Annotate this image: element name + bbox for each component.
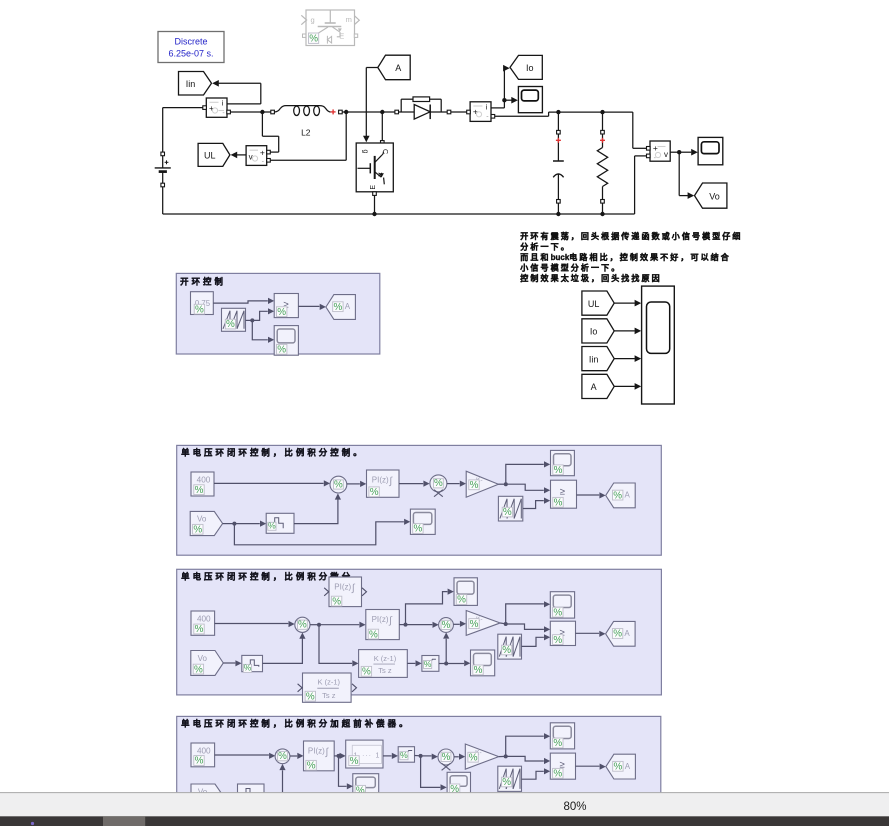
port resistor bottom [601, 200, 605, 204]
svg-text:%: % [307, 761, 316, 772]
goto tag A r3 [606, 621, 636, 646]
wire node to scope2 r3 [446, 660, 470, 666]
svg-text:+: + [653, 143, 658, 153]
wire gain node r4 [499, 754, 508, 758]
wire gain node r3 [500, 622, 508, 626]
wire node to scope3 r3 [506, 601, 551, 624]
wire CM1 to inductor [230, 111, 270, 113]
from tag Iin (monitor) [582, 347, 614, 371]
wire saturation node r3 [439, 662, 448, 666]
area title PI control [181, 448, 365, 458]
wire Vo feedback to scope r2 [234, 519, 410, 545]
svg-text:%: % [369, 629, 378, 640]
wire diode to CM2 [451, 111, 467, 113]
wire node to product r4 [421, 754, 438, 760]
junction capacitor branch [556, 110, 560, 130]
from tag Vo r4 [191, 784, 223, 808]
svg-text:%: % [554, 465, 563, 476]
svg-text:PI(z): PI(z) [372, 615, 389, 624]
svg-text:Discrete: Discrete [174, 37, 207, 47]
svg-text:%: % [268, 521, 276, 531]
scope block region1 (commented) [274, 326, 298, 356]
wire Iin to scope [614, 355, 641, 362]
svg-text:%: % [424, 659, 432, 669]
svg-text:Io: Io [590, 327, 598, 337]
wire gain output node r2 [498, 482, 507, 486]
wire rate block to sum r2 [294, 493, 341, 523]
from tag Vo r3 [191, 651, 224, 676]
wire L2 to diode [342, 111, 395, 113]
svg-text:A: A [624, 629, 630, 638]
svg-text:%: % [244, 663, 252, 673]
wire to Vo tag [679, 152, 694, 199]
svg-text:Iin: Iin [186, 79, 196, 89]
wire VM2 output node [670, 150, 681, 154]
sum block r2 [330, 476, 347, 493]
svg-text:m: m [346, 15, 352, 24]
wire PI out node r3 [399, 622, 438, 628]
svg-text:单电压环闭环控制，比例积分控制。: 单电压环闭环控制，比例积分控制。 [181, 448, 365, 458]
svg-text:E: E [370, 185, 377, 190]
svg-text:%: % [502, 777, 511, 788]
svg-text:K (z-1): K (z-1) [374, 654, 397, 663]
svg-text:%: % [400, 750, 408, 760]
svg-text:%: % [334, 479, 343, 490]
svg-text:%: % [195, 756, 204, 767]
voltage measurement block VM2 [650, 141, 670, 162]
svg-text:%: % [442, 620, 451, 631]
svg-text:%: % [470, 619, 479, 630]
svg-text:400: 400 [197, 747, 211, 756]
repeating sequence block (commented) [222, 308, 246, 331]
gain block r3 [466, 611, 500, 636]
wire Vo to rate block r2 [223, 521, 267, 527]
svg-text:%: % [298, 620, 307, 631]
svg-text:PI(z): PI(z) [334, 583, 351, 592]
scope (Io) [518, 87, 542, 113]
wire node down to scope r4 [339, 756, 354, 790]
inductor L2 [274, 106, 330, 116]
goto tag A r4 [606, 754, 636, 779]
repeating sequence block r4 [498, 766, 522, 791]
svg-text:%: % [469, 752, 478, 763]
svg-text:UL: UL [588, 299, 600, 309]
red polarity mark resistor [600, 138, 605, 143]
commented-out IGBT/Diode block (gray) [301, 10, 359, 46]
wire node to relational r4 [506, 756, 551, 764]
area: open loop control region [176, 273, 379, 354]
svg-text:%: % [195, 485, 204, 496]
goto tag UL [198, 143, 230, 166]
scope (Vo) [698, 137, 723, 164]
constant block 0.75 (commented) [191, 292, 214, 316]
capacitor C1 [553, 134, 564, 200]
goto tag A region1 (commented) [326, 295, 356, 320]
current measurement block CM1 [206, 98, 227, 117]
wire node up to sum2 r3 [443, 632, 449, 663]
wire product to gain r4 [454, 754, 465, 760]
svg-text:%: % [195, 304, 204, 315]
svg-text:分析一下。: 分析一下。 [520, 242, 571, 252]
svg-text:A: A [395, 63, 401, 73]
bottom rail wire [163, 213, 635, 215]
relational operator block r4 [550, 753, 575, 779]
svg-text:%: % [277, 307, 286, 318]
wire rail to VM2 minus [635, 156, 647, 214]
svg-text:开环控制: 开环控制 [180, 276, 226, 286]
PI(z) controller block r4 [304, 741, 335, 772]
port VM2 plus [647, 147, 651, 151]
svg-text:C: C [381, 149, 388, 154]
wire capacitor to rail [556, 203, 560, 216]
load resistor R1 [597, 134, 607, 200]
sum block r3 [295, 617, 310, 632]
saturation block r4 [398, 747, 414, 763]
port L2 right [339, 110, 343, 114]
svg-text:K (z-1): K (z-1) [318, 677, 341, 686]
wire Io to scope [614, 328, 641, 335]
svg-text:400: 400 [197, 615, 211, 624]
current measurement block CM2 [470, 102, 491, 122]
wire product to gain r2 [447, 481, 466, 487]
saturation block r3 [422, 656, 439, 672]
wire node to relational r3 [506, 624, 551, 633]
goto tag A r2 [606, 483, 636, 508]
red polarity mark capacitor [556, 138, 561, 143]
svg-text:. . .: . . . [362, 752, 371, 758]
junction node to IGBT collector [380, 110, 384, 141]
annotation text (Chinese) [519, 231, 742, 283]
svg-text:Iin: Iin [589, 354, 599, 364]
port VM2 minus [647, 154, 651, 158]
svg-text:%: % [306, 691, 315, 702]
sum block r4 [275, 749, 290, 764]
wire A to scope [614, 383, 641, 390]
rate transition block r4 [238, 784, 265, 804]
svg-text:A: A [625, 762, 631, 771]
port diode cathode [447, 110, 451, 114]
wire node to bottom scope r4 [421, 756, 447, 791]
scope block bottom r3 [471, 650, 495, 676]
wire node to derivative r3 [319, 625, 359, 667]
from tag A (monitor) [582, 374, 614, 398]
wire Vo to rate r3 [223, 660, 241, 666]
wire diode anode [399, 111, 415, 113]
svg-text:%: % [332, 596, 341, 607]
svg-text:%: % [502, 645, 511, 656]
relational operator block r2 [551, 480, 577, 508]
svg-text:%: % [370, 487, 379, 498]
wire node to scope1 r3 [406, 589, 454, 625]
wire sum2 to gain r3 [453, 621, 466, 627]
svg-text:%: % [278, 751, 287, 762]
svg-text:Vo: Vo [197, 515, 207, 524]
wire relational to goto r2 [577, 492, 606, 498]
red polarity mark L2 right [331, 109, 336, 114]
svg-text:开环有震荡，回头根据传递函数或小信号模型仔细: 开环有震荡，回头根据传递函数或小信号模型仔细 [520, 231, 742, 241]
port CM1 left [203, 106, 207, 110]
svg-text:PI(z): PI(z) [372, 476, 389, 485]
svg-text:%: % [553, 635, 562, 646]
constant block 400 r2 [191, 472, 214, 496]
svg-text:小信号模型分析一下。: 小信号模型分析一下。 [519, 262, 621, 272]
repeating sequence block r2 [498, 496, 522, 521]
scope block top r4 [550, 723, 574, 749]
scope block top r2 [551, 450, 575, 476]
scope block top-left r3 [454, 578, 477, 606]
wire saturation node r4 [415, 754, 423, 758]
wire VM1 to UL tag [231, 152, 247, 159]
svg-text:%: % [474, 665, 483, 676]
svg-text:%: % [362, 667, 371, 678]
svg-text:80%: 80% [563, 801, 586, 813]
port diode anode [395, 110, 399, 114]
wire lead to saturation r4 [383, 753, 398, 759]
zoom level text 80% [563, 801, 586, 813]
svg-text:%: % [195, 624, 204, 635]
wire 400 to sum r2 [214, 480, 330, 486]
discrete derivative block r3 [359, 650, 408, 678]
svg-text:6.25e-07 s.: 6.25e-07 s. [168, 49, 213, 59]
svg-text:单电压环闭环控制，比例积分加超前补偿器。: 单电压环闭环控制，比例积分加超前补偿器。 [181, 719, 411, 729]
svg-text:g: g [311, 16, 315, 25]
svg-text:%: % [613, 629, 622, 640]
wire sum to node r3 [310, 622, 366, 628]
from tag UL (monitor) [582, 291, 614, 315]
scope block top-right r3 [550, 592, 574, 619]
wire A tag to IGBT gate [363, 68, 378, 143]
svg-text:A: A [591, 382, 597, 392]
rate transition block r3 [242, 655, 263, 672]
svg-text:%: % [503, 507, 512, 518]
port CM2 left [467, 110, 471, 114]
svg-text:%: % [613, 490, 622, 501]
voltage measurement block VM1 [246, 146, 267, 166]
area: closed-loop PI plus lead compensator region [177, 716, 661, 796]
status bar [0, 792, 889, 816]
wire sum to PI r4 [290, 753, 304, 759]
junction resistor branch [600, 110, 604, 130]
rate transition block r2 [266, 513, 294, 533]
powergui block (Discrete 6.25e-07 s.) [158, 32, 224, 63]
wire resistor to rail [600, 203, 604, 216]
wire sawtooth to relational r2 [523, 498, 550, 509]
area title PID [181, 572, 365, 582]
svg-text:+: + [209, 103, 214, 113]
product block r4 [438, 749, 454, 770]
scope block bottom middle r4 [447, 772, 470, 795]
svg-text:%: % [226, 319, 235, 330]
svg-text:v: v [664, 150, 668, 159]
wire into Iin tag [212, 80, 261, 104]
wire relational to goto r3 [576, 631, 606, 637]
relational operator block (commented) [274, 294, 298, 318]
svg-text:400: 400 [197, 476, 211, 485]
wire node to scope top r2 [506, 461, 550, 484]
IGBT Q1 [356, 143, 393, 192]
port CM1 right [227, 110, 231, 114]
svg-text:Ts z: Ts z [322, 691, 336, 700]
wire relational to goto A [298, 304, 326, 310]
wire DC source to ground rail [162, 187, 164, 214]
wire PI to product r2 [399, 481, 430, 487]
svg-text:PI(z): PI(z) [308, 747, 325, 756]
product block r2 [430, 475, 447, 497]
gain block r4 [465, 744, 498, 769]
DC voltage source E1 [155, 152, 171, 187]
wire to Vo scope [679, 149, 698, 156]
svg-text:1: 1 [376, 753, 380, 760]
goto tag Iin [179, 72, 212, 96]
svg-text:+: + [260, 147, 265, 157]
wire 400 to sum r3 [215, 621, 295, 627]
wire CM2 i-output to Io tag and scope [491, 65, 518, 108]
wire sum to PI r2 [347, 481, 367, 487]
scope (4-input monitor) [642, 286, 675, 404]
wire node to relational r2 [506, 484, 550, 493]
constant block 400 r3 [191, 611, 215, 635]
wire PI out node r4 [334, 753, 346, 759]
wire output node to VM2 plus [633, 112, 647, 148]
bottom task bar [0, 816, 889, 826]
goto tag Vo [695, 183, 727, 208]
svg-text:%: % [194, 664, 203, 675]
svg-text:%: % [457, 595, 466, 606]
svg-text:A: A [345, 302, 351, 311]
svg-text:Vo: Vo [709, 191, 720, 201]
svg-text:L2: L2 [301, 128, 311, 138]
repeating sequence block r3 [498, 634, 522, 659]
PI(z) controller block r2 [367, 470, 400, 498]
port IGBT collector [381, 141, 385, 145]
svg-text:%: % [554, 498, 563, 509]
svg-text:A: A [625, 491, 631, 500]
wire node to scope top r4 [506, 733, 551, 756]
snubber resistor over diode [401, 97, 441, 112]
port capacitor top [557, 130, 561, 134]
area title open loop [180, 276, 226, 286]
port CM2 out [491, 115, 495, 119]
wire UL to scope [614, 300, 641, 307]
L2 value label [301, 128, 311, 138]
svg-text:%: % [334, 302, 343, 313]
scope block bottom r2 [410, 509, 435, 535]
wire CM1 to DC source [163, 108, 203, 153]
from tag Vo r2 [190, 511, 222, 535]
port VM1 plus [267, 150, 271, 154]
area: closed-loop PI control region [177, 445, 662, 555]
svg-text:%: % [442, 752, 451, 763]
gain block r2 [466, 471, 498, 497]
svg-text:%: % [434, 478, 443, 489]
wire CM2 to output node [495, 112, 633, 116]
svg-text:%: % [277, 345, 286, 356]
floating PI(z) block r3 [324, 577, 366, 607]
diode D1 [414, 105, 430, 120]
wire 400 to sum r4 [215, 753, 276, 759]
relational operator block r3 [550, 621, 575, 646]
floating derivative block r3 [298, 673, 357, 702]
svg-text:%: % [350, 756, 359, 767]
svg-text:%: % [193, 525, 202, 536]
port IGBT emitter [373, 192, 377, 196]
port L2 left [271, 110, 275, 114]
wire derivative to saturation r3 [407, 660, 421, 666]
port resistor top [601, 130, 605, 134]
wire relational to goto r4 [576, 764, 606, 770]
svg-text:%: % [614, 762, 623, 773]
PI(z) controller block r3 [366, 610, 400, 641]
svg-text:%: % [470, 480, 479, 491]
wire feedback up into sum r4 [279, 764, 285, 792]
scope block below PI r4 [353, 774, 379, 797]
wire sawtooth to relational r4 [522, 768, 551, 779]
wire diode cathode [430, 111, 447, 113]
wire 0.75 to relational [213, 298, 274, 304]
svg-text:%: % [553, 607, 562, 618]
lead compensator block r4 [346, 740, 383, 768]
wire sawtooth out [246, 308, 275, 343]
svg-text:≥: ≥ [560, 486, 565, 497]
wire rate to sum r3 [263, 633, 306, 664]
svg-text:Io: Io [526, 63, 534, 73]
svg-text:UL: UL [204, 151, 216, 161]
svg-text:g: g [362, 150, 369, 154]
port capacitor bottom [557, 200, 561, 204]
area title PI lead [181, 719, 411, 729]
svg-text:Vo: Vo [198, 654, 208, 663]
goto tag Io [510, 55, 542, 79]
constant block 400 r4 [191, 743, 215, 767]
port VM1 minus [267, 159, 271, 163]
from tag Io (monitor) [582, 319, 614, 343]
from tag A (gate drive) [378, 55, 410, 79]
svg-text:%: % [553, 738, 562, 749]
wire sawtooth to relational r3 [522, 634, 551, 646]
svg-text:%: % [553, 769, 562, 780]
svg-text:%: % [414, 524, 423, 535]
wire IGBT emitter to rail [372, 195, 376, 216]
svg-text:Ts z: Ts z [378, 666, 392, 675]
area: closed-loop PID control region [177, 569, 662, 695]
junction node to VM1 plus tap [260, 110, 279, 152]
svg-text:v: v [249, 152, 253, 161]
svg-text:而且和buck电路相比，控制效果不好，可以结合: 而且和buck电路相比，控制效果不好，可以结合 [520, 252, 731, 262]
svg-text:控制效果太垃圾，回头找找原因: 控制效果太垃圾，回头找找原因 [520, 273, 661, 283]
sum block 2 r3 [439, 618, 454, 633]
junction node to UL minus tap [271, 110, 349, 161]
svg-text:%: % [309, 34, 318, 45]
